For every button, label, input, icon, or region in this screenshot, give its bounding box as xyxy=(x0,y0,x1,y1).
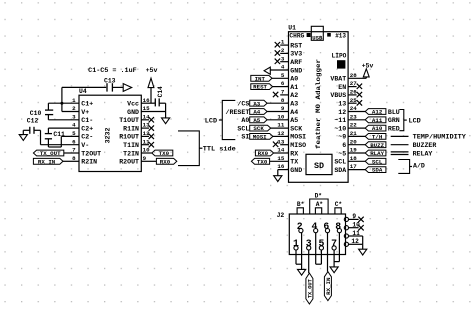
U1 pin name A3 (pin 8) xyxy=(290,101,298,108)
wire J2 pin 4 xyxy=(315,233,317,265)
no-connect J2 pin 10 xyxy=(349,225,364,230)
U4 pin number 5 xyxy=(72,130,76,137)
power +5v label (U1) xyxy=(362,62,374,69)
U1 pin number 14 xyxy=(277,147,284,154)
U1 pin name 12 (pin 24) xyxy=(338,109,346,116)
note RELAY xyxy=(413,150,433,157)
U4 pin name C2- xyxy=(81,134,93,141)
U1 pin number 17 xyxy=(350,163,357,170)
capacitor C10 xyxy=(45,103,53,120)
U1 pin number 25 xyxy=(350,97,357,104)
ground (J2 pin 7) xyxy=(330,267,338,273)
U1 pin name A1 (pin 6) xyxy=(290,84,298,91)
capacitor C12 xyxy=(23,127,40,134)
net label A12 (U1 pin 24) xyxy=(348,109,386,116)
svg-text:TX0: TX0 xyxy=(257,158,268,165)
svg-text:A1: A1 xyxy=(290,84,298,91)
U1 pin number 19 xyxy=(350,147,357,154)
net label TX_OUT (J2) xyxy=(306,273,314,304)
svg-text:GND: GND xyxy=(290,67,302,74)
svg-text:VBAT: VBAT xyxy=(330,76,346,83)
svg-text:8: 8 xyxy=(72,155,76,162)
U4 pin number 13 xyxy=(143,122,150,129)
wire top net to C13 xyxy=(62,86,106,88)
U1 pin name ARF (pin 3) xyxy=(290,59,302,66)
U4 pin name R1OUT xyxy=(119,134,139,141)
net label INT xyxy=(251,75,289,82)
U1 pin number 23 xyxy=(350,113,357,120)
U4 pin number 15 xyxy=(143,105,150,112)
net label SCL (U1 pin 18) xyxy=(348,158,386,165)
svg-text:A0: A0 xyxy=(241,117,249,124)
svg-text:A10: A10 xyxy=(372,125,383,132)
svg-text:T2IN: T2IN xyxy=(123,150,139,157)
J2 pin 1 xyxy=(293,238,299,250)
U1 CHRG label xyxy=(289,33,304,40)
U4 pin name T1OUT xyxy=(119,117,139,124)
U4 pin number 10 xyxy=(143,147,150,154)
wire U4 pin 5 C2- xyxy=(61,135,79,137)
U1 #13 label xyxy=(335,33,346,40)
wire U4 pin 8 R2IN xyxy=(63,160,79,162)
svg-text:CHRG: CHRG xyxy=(289,33,304,40)
svg-text:SDA: SDA xyxy=(372,167,383,174)
U1 LIPO label xyxy=(332,52,347,59)
svg-text:T/H: T/H xyxy=(372,134,383,141)
brace A/D xyxy=(398,160,412,174)
wire C12 to V- xyxy=(40,130,42,144)
wire U4 pin 2 V+ xyxy=(62,111,79,113)
U1 pin number 24 xyxy=(350,105,357,112)
U4 pin name R2IN xyxy=(81,159,97,166)
net label RX_IN xyxy=(33,158,63,165)
J2 pin 3 xyxy=(306,238,312,250)
J2 pin 10 number xyxy=(352,222,360,229)
svg-text:C11: C11 xyxy=(53,131,65,138)
svg-text:BLU: BLU xyxy=(388,109,400,116)
U1 pin name 6 (pin 20) xyxy=(342,142,346,149)
svg-text:C2-: C2- xyxy=(81,134,93,141)
svg-text:U4: U4 xyxy=(79,88,87,95)
svg-text:A4: A4 xyxy=(253,109,260,116)
U1 pin number 1 xyxy=(281,39,285,46)
svg-text:8: 8 xyxy=(335,221,341,232)
U4 pin number 9 xyxy=(143,155,147,162)
svg-text:R1IN: R1IN xyxy=(123,125,139,132)
net label RX0 (U1) xyxy=(255,150,288,157)
svg-text:J2: J2 xyxy=(277,212,285,219)
wire T/H xyxy=(391,135,409,137)
svg-text:EN: EN xyxy=(338,84,346,91)
net label TX0 (U1) xyxy=(251,158,288,165)
no-connect U4 pin 13 xyxy=(141,125,154,130)
svg-text:RX_IN: RX_IN xyxy=(38,158,56,165)
svg-text:A4: A4 xyxy=(290,109,298,116)
ground (U1 pin 16) xyxy=(274,176,282,182)
J2 pin 2 xyxy=(297,221,303,233)
no-connect U4 pin 12 xyxy=(141,134,154,139)
svg-text:4: 4 xyxy=(312,221,318,232)
wire color RED xyxy=(388,125,400,132)
U1 part name feather M0 Adalogger xyxy=(315,59,322,149)
U4 pin name C1+ xyxy=(81,101,93,108)
svg-text:C2+: C2+ xyxy=(81,125,93,132)
no-connect J2 pin 9 xyxy=(349,217,364,222)
svg-text:A/D: A/D xyxy=(413,163,425,170)
wire color GRN xyxy=(388,117,400,124)
svg-text:BUZZ: BUZZ xyxy=(370,142,384,149)
J2 pin 7 xyxy=(331,238,337,250)
ground (C12) xyxy=(19,130,27,140)
svg-text:TX0: TX0 xyxy=(159,150,170,157)
wire U4 pin 6 V- xyxy=(41,144,80,146)
J2 pin 11 pad xyxy=(344,234,348,238)
svg-text:+5v: +5v xyxy=(146,67,158,74)
net label A10 (U1 pin 22) xyxy=(348,125,386,132)
J2 pin 8 xyxy=(335,221,341,233)
svg-text:/RESET: /RESET xyxy=(226,109,250,116)
svg-text:3232: 3232 xyxy=(105,128,112,144)
net label BUZZ (U1 pin 20) xyxy=(348,142,386,149)
no-connect U1 pin 26 xyxy=(348,92,362,97)
U1 pin name A2 (pin 7) xyxy=(290,92,298,99)
wire U4 pin 16 Vcc xyxy=(141,102,155,104)
svg-text:ARF: ARF xyxy=(290,59,302,66)
J2 pin 5 xyxy=(318,238,324,250)
svg-text:A2: A2 xyxy=(290,92,298,99)
power +5v label (U4 Vcc) xyxy=(146,67,158,74)
svg-text:6: 6 xyxy=(342,142,346,149)
U4 pin name C1- xyxy=(81,117,93,124)
no-connect U4 pin 11 xyxy=(141,142,154,147)
capacitor C14 label xyxy=(157,86,164,97)
net label C* xyxy=(335,201,343,214)
svg-text:C13: C13 xyxy=(104,77,116,84)
svg-text:RST: RST xyxy=(290,42,302,49)
svg-text:3V3: 3V3 xyxy=(290,51,302,58)
svg-text:feather M0 Adalogger: feather M0 Adalogger xyxy=(315,59,322,149)
U1 pin name 13 (pin 25) xyxy=(338,101,346,108)
svg-text:TTL side: TTL side xyxy=(203,146,236,154)
svg-text:T1OUT: T1OUT xyxy=(119,117,139,124)
no-connect U1 pin 27 xyxy=(348,84,362,89)
U1 pin name RX (pin 14) xyxy=(290,150,298,157)
svg-text:A0: A0 xyxy=(290,76,298,83)
svg-text:RX0: RX0 xyxy=(258,150,269,157)
LCD signal /CS xyxy=(237,101,249,108)
wire V+ riser xyxy=(61,87,63,111)
U1 pin number 10 xyxy=(277,113,284,120)
svg-text:~5: ~5 xyxy=(338,150,346,157)
svg-text:SCK: SCK xyxy=(290,125,302,132)
wire U4 pin 3 C1- xyxy=(48,119,79,121)
U1 pin name TX (pin 15) xyxy=(290,159,298,166)
svg-text:~9: ~9 xyxy=(338,134,346,141)
wire U1 pin 28 VBAT xyxy=(348,77,366,79)
U1 pin number 18 xyxy=(350,155,357,162)
net label REST xyxy=(251,84,289,91)
note TTL side xyxy=(203,146,236,154)
note TEMP/HUMIDITY xyxy=(413,134,466,141)
U1 pin name SCL (pin 18) xyxy=(334,159,346,166)
op-amp U4 designator xyxy=(79,88,87,95)
brace LCD (right) xyxy=(399,110,406,131)
svg-text:VBUS: VBUS xyxy=(330,92,346,99)
svg-text:A11: A11 xyxy=(372,117,383,124)
net label A5 (U1 pin 10) xyxy=(250,117,289,124)
J2 pin 6 xyxy=(323,221,329,233)
net label TX0 (U4) xyxy=(152,150,173,157)
U1 pin number 7 xyxy=(281,89,285,96)
ground (J2 shield) xyxy=(359,249,367,255)
U1 pin number 4 xyxy=(281,64,285,71)
svg-text:A3: A3 xyxy=(290,101,298,108)
wire J2 pin 6 xyxy=(327,233,329,272)
svg-text:B*: B* xyxy=(297,201,305,208)
junction node C1+/V+ xyxy=(60,102,63,105)
U1 pin number 2 xyxy=(281,47,285,54)
U1 pin name GND (pin 16) xyxy=(290,167,302,174)
U1 pin number 13 xyxy=(277,138,284,145)
U1 pin name ~10 (pin 22) xyxy=(334,125,346,132)
svg-text:C*: C* xyxy=(335,201,343,208)
no-connect U4 pin 14 xyxy=(141,117,154,122)
svg-text:2: 2 xyxy=(297,221,303,232)
ground (J2 pin 2) xyxy=(298,269,306,275)
note BUZZER xyxy=(413,142,437,149)
U1 pin name VBAT (pin 28) xyxy=(330,76,346,83)
wire J2 pin 12 xyxy=(349,244,363,249)
net label A11 (U1 pin 23) xyxy=(348,117,386,124)
U1 pin number 27 xyxy=(350,80,357,87)
svg-text:SDA: SDA xyxy=(334,167,346,174)
J2 pin 4 xyxy=(312,221,318,233)
net label RLAY (U1 pin 19) xyxy=(348,150,386,157)
wire J2 pin 2 xyxy=(301,233,303,270)
svg-text:TX_OUT: TX_OUT xyxy=(307,279,314,298)
wire U4 pin 4 C2+ xyxy=(48,127,79,129)
U1 pin number 12 xyxy=(277,130,284,137)
svg-text:Vcc: Vcc xyxy=(127,101,139,108)
svg-text:C10: C10 xyxy=(30,110,42,117)
svg-text:GND: GND xyxy=(290,167,302,174)
U1 pin name EN (pin 27) xyxy=(338,84,346,91)
svg-text:SCK: SCK xyxy=(253,125,264,132)
U4 pin name T1IN xyxy=(123,142,139,149)
net label A3 (U1 pin 8) xyxy=(250,100,289,107)
wire U4 pin 7 T2OUT xyxy=(64,152,79,154)
svg-text:SI: SI xyxy=(241,134,249,141)
svg-text:~11: ~11 xyxy=(334,117,346,124)
capacitor C12 label xyxy=(27,118,39,125)
LED CHRG xyxy=(307,33,311,37)
U4 pin number 2 xyxy=(72,105,76,112)
LCD signal SCL xyxy=(237,125,249,132)
U1 pin name A0 (pin 5) xyxy=(290,76,298,83)
svg-text:RX0: RX0 xyxy=(160,158,171,165)
svg-text:GND: GND xyxy=(127,109,139,116)
net label MOSI (U1 pin 12) xyxy=(250,134,289,141)
capacitor C13 label xyxy=(104,77,116,84)
svg-text:T2OUT: T2OUT xyxy=(81,150,101,157)
svg-text:R2OUT: R2OUT xyxy=(119,159,139,166)
U1 pin number 5 xyxy=(281,72,285,79)
svg-text:R1OUT: R1OUT xyxy=(119,134,139,141)
U1 pin number 8 xyxy=(281,97,285,104)
svg-text:V-: V- xyxy=(81,142,89,149)
U1 pin name GND (pin 4) xyxy=(290,67,302,74)
U4 pin number 7 xyxy=(72,147,76,154)
U1 pin name VBUS (pin 26) xyxy=(330,92,346,99)
svg-text:#13: #13 xyxy=(335,33,346,40)
power +5v symbol (U1) xyxy=(363,69,369,79)
note LCD (left) xyxy=(205,117,217,125)
LIPO battery connector xyxy=(337,60,345,68)
U4 pin number 3 xyxy=(72,113,76,120)
U4 pin name T2IN xyxy=(123,150,139,157)
U4 pin name Vcc xyxy=(127,101,139,108)
net label B* xyxy=(297,201,305,214)
SD card socket xyxy=(306,154,332,174)
svg-text:RED: RED xyxy=(388,125,400,132)
wire U4 pin 9 R2OUT xyxy=(141,160,156,162)
U1 pin number 9 xyxy=(281,105,285,112)
svg-text:SCL: SCL xyxy=(237,125,249,132)
svg-text:13: 13 xyxy=(338,101,346,108)
wire C11 to C2- jog xyxy=(48,136,61,147)
U1 pin number 28 xyxy=(350,72,357,79)
svg-text:RX: RX xyxy=(290,150,298,157)
svg-text:C1+: C1+ xyxy=(81,101,93,108)
svg-text:6: 6 xyxy=(323,221,329,232)
svg-text:C12: C12 xyxy=(27,118,39,125)
wire J2 pin 11 xyxy=(349,236,363,244)
wire RLAY (pair) xyxy=(391,152,409,155)
svg-text:A5: A5 xyxy=(290,117,298,124)
LED #13 xyxy=(327,33,331,37)
U4 pin number 12 xyxy=(143,130,150,137)
svg-text:LIPO: LIPO xyxy=(332,52,347,59)
no-connect U1 pin 2 xyxy=(275,50,289,55)
U4 pin number 14 xyxy=(143,113,150,120)
U4 pin name R1IN xyxy=(123,125,139,132)
net label RX0 (U4) xyxy=(156,158,176,165)
wire J2 pin 7 xyxy=(333,250,335,267)
U1 pin number 3 xyxy=(281,55,285,62)
svg-text:TEMP/HUMIDITY: TEMP/HUMIDITY xyxy=(413,134,466,141)
svg-text:INT: INT xyxy=(255,75,266,82)
capacitor C13 xyxy=(107,83,123,91)
svg-text:A12: A12 xyxy=(372,109,383,116)
U1 pin number 26 xyxy=(350,89,357,96)
svg-text:MOSI: MOSI xyxy=(290,134,306,141)
svg-text:RLAY: RLAY xyxy=(370,150,384,157)
svg-text:5: 5 xyxy=(72,130,76,137)
net label T/H (U1 pin 21) xyxy=(348,134,386,141)
U1 pin number 6 xyxy=(281,80,285,87)
LCD signal /RESET xyxy=(226,109,250,116)
capacitor C10 label xyxy=(30,110,42,117)
svg-text:TX_OUT: TX_OUT xyxy=(40,150,61,157)
U4 pin name T2OUT xyxy=(81,150,101,157)
svg-text:RELAY: RELAY xyxy=(413,150,433,157)
net label A4 (U1 pin 9) xyxy=(250,109,289,116)
U1 pin number 15 xyxy=(277,155,284,162)
IC U4 MAX3232 body xyxy=(79,95,141,171)
U1 pin name SCK (pin 11) xyxy=(290,125,302,132)
U4 pin name GND xyxy=(127,109,139,116)
U1 pin name ~5 (pin 19) xyxy=(338,150,346,157)
svg-text:4: 4 xyxy=(72,122,76,129)
capacitor C14 xyxy=(155,98,165,111)
IC U1 designator xyxy=(288,25,296,32)
wire U4 pin 10 T2IN xyxy=(141,152,152,154)
wire color BLU xyxy=(388,109,400,116)
svg-text:~10: ~10 xyxy=(334,125,346,132)
value note C1-C5 = .1uF xyxy=(88,67,137,74)
no-connect U1 pin 3 xyxy=(275,59,289,64)
no-connect U1 pin 25 xyxy=(348,100,362,105)
U4 pin name R2OUT xyxy=(119,159,139,166)
svg-text:2: 2 xyxy=(72,105,76,112)
net label A* xyxy=(315,201,323,214)
ground arrow U1 pin 4 GND xyxy=(264,67,288,74)
U1 pin name A4 (pin 9) xyxy=(290,109,298,116)
no-connect U1 pin 1 xyxy=(275,42,289,47)
LCD signal A0 xyxy=(241,117,249,124)
svg-text:LCD: LCD xyxy=(205,117,217,125)
U4 pin name V+ xyxy=(81,109,89,116)
J2 pin 11 number xyxy=(352,230,360,237)
svg-text:C14: C14 xyxy=(157,86,164,97)
U4 part value 3232 xyxy=(105,128,112,144)
U1 pin number 16 xyxy=(277,163,284,170)
svg-text:R2IN: R2IN xyxy=(81,159,97,166)
svg-text:SCL: SCL xyxy=(334,159,346,166)
svg-text:A*: A* xyxy=(316,201,324,208)
U1 pin name ~9 (pin 21) xyxy=(338,134,346,141)
net label TX_OUT xyxy=(33,150,63,157)
J2 pin 12 pad xyxy=(344,242,348,246)
svg-text:C1-C5 = .1uF: C1-C5 = .1uF xyxy=(88,67,137,74)
U4 pin number 11 xyxy=(143,138,150,145)
svg-text:V+: V+ xyxy=(81,109,89,116)
U4 pin number 8 xyxy=(72,155,76,162)
U4 pin name C2+ xyxy=(81,125,93,132)
svg-text:USB: USB xyxy=(312,35,323,42)
U1 pin name 3V3 (pin 2) xyxy=(290,51,302,58)
capacitor C11 label xyxy=(53,131,65,138)
wire U1 pin 16 GND xyxy=(278,170,289,176)
svg-text:U1: U1 xyxy=(288,25,296,32)
svg-text:REST: REST xyxy=(253,84,267,91)
svg-text:7: 7 xyxy=(72,147,76,154)
U1 pin name ~11 (pin 23) xyxy=(334,117,346,124)
U4 pin number 1 xyxy=(72,97,76,104)
svg-text:A5: A5 xyxy=(253,117,260,124)
wire U4 pin 15 GND xyxy=(141,111,165,113)
note A/D xyxy=(413,163,425,170)
svg-text:1: 1 xyxy=(72,97,76,104)
net label SCK (U1 pin 11) xyxy=(250,125,289,132)
U1 pin number 11 xyxy=(277,122,284,129)
U1 pin number 20 xyxy=(350,138,357,145)
svg-text:+5v: +5v xyxy=(362,62,374,69)
U4 pin number 6 xyxy=(72,138,76,145)
wire U4 pin 1 C1+ xyxy=(48,102,79,104)
svg-text:/CS: /CS xyxy=(237,101,249,108)
wire J2 pin 5 xyxy=(316,250,322,264)
